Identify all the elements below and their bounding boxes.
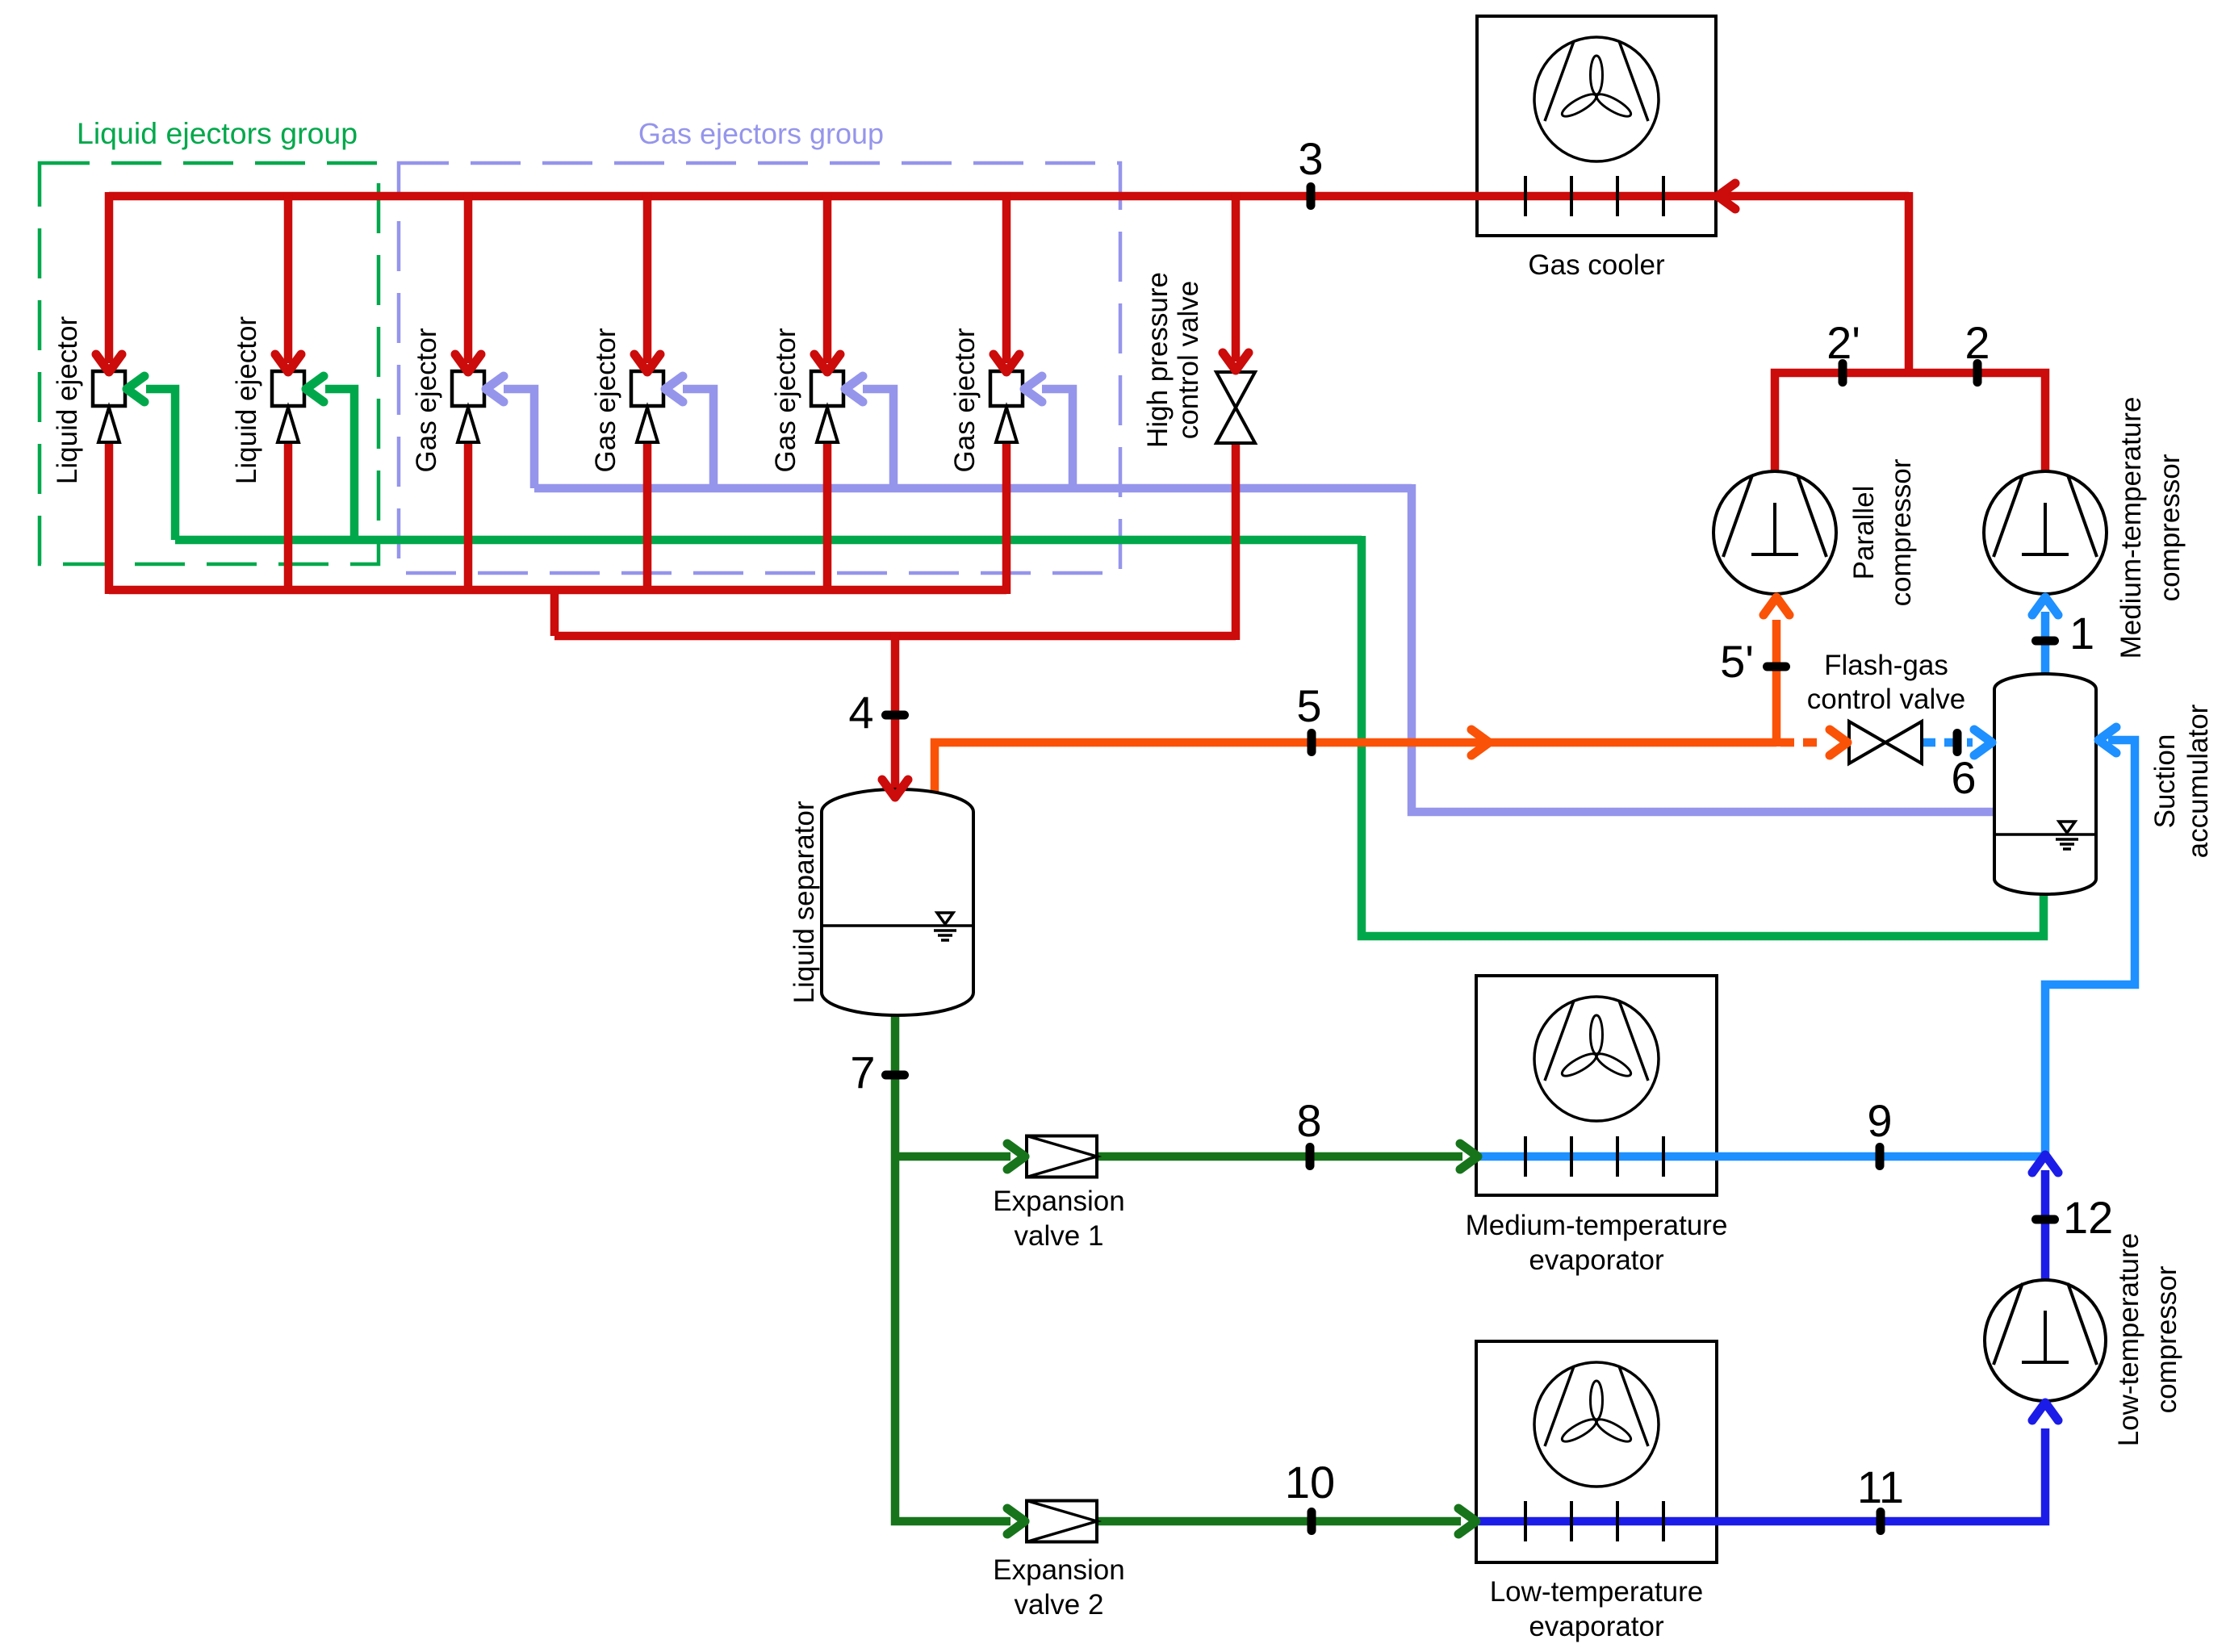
svg-text:Gas ejector: Gas ejector — [949, 328, 981, 472]
svg-text:5: 5 — [1296, 680, 1321, 731]
svg-text:Liquid ejectors group: Liquid ejectors group — [77, 116, 358, 150]
svg-text:Gas ejector: Gas ejector — [590, 328, 621, 472]
svg-text:High pressure: High pressure — [1142, 272, 1174, 448]
svg-text:Liquid ejector: Liquid ejector — [231, 316, 262, 485]
svg-text:Liquid separator: Liquid separator — [789, 801, 820, 1003]
svg-text:Suction: Suction — [2149, 734, 2181, 829]
svg-text:11: 11 — [1857, 1462, 1904, 1512]
svg-text:Medium-temperature: Medium-temperature — [1466, 1210, 1728, 1241]
svg-text:2: 2 — [1964, 317, 1990, 368]
svg-text:evaporator: evaporator — [1529, 1611, 1664, 1642]
svg-text:Parallel: Parallel — [1848, 486, 1880, 580]
svg-text:evaporator: evaporator — [1529, 1244, 1664, 1276]
svg-text:Low-temperature: Low-temperature — [2113, 1233, 2144, 1447]
svg-text:Gas ejector: Gas ejector — [411, 328, 442, 472]
svg-text:compressor: compressor — [2151, 1265, 2182, 1413]
svg-text:2': 2' — [1826, 317, 1860, 368]
svg-text:Expansion: Expansion — [993, 1186, 1124, 1217]
svg-text:compressor: compressor — [1885, 458, 1917, 606]
svg-text:Flash-gas: Flash-gas — [1824, 650, 1948, 681]
svg-text:Gas cooler: Gas cooler — [1528, 249, 1665, 281]
svg-text:valve 2: valve 2 — [1015, 1589, 1104, 1621]
svg-text:Gas ejector: Gas ejector — [770, 328, 801, 472]
svg-text:Low-temperature: Low-temperature — [1490, 1576, 1704, 1608]
svg-text:6: 6 — [1951, 752, 1976, 803]
svg-text:7: 7 — [850, 1047, 875, 1098]
svg-text:compressor: compressor — [2154, 454, 2186, 601]
svg-text:Medium-temperature: Medium-temperature — [2115, 397, 2147, 659]
svg-text:Liquid ejector: Liquid ejector — [52, 316, 83, 485]
svg-text:8: 8 — [1296, 1095, 1321, 1146]
svg-text:1: 1 — [2069, 608, 2094, 659]
svg-text:valve 1: valve 1 — [1015, 1220, 1104, 1252]
svg-text:12: 12 — [2063, 1192, 2113, 1243]
svg-text:control valve: control valve — [1807, 684, 1965, 715]
svg-text:Expansion: Expansion — [993, 1554, 1124, 1586]
svg-text:9: 9 — [1867, 1095, 1892, 1146]
svg-text:10: 10 — [1285, 1457, 1335, 1508]
svg-text:control valve: control valve — [1173, 281, 1204, 439]
svg-text:accumulator: accumulator — [2182, 704, 2214, 858]
svg-text:Gas ejectors group: Gas ejectors group — [638, 117, 884, 150]
svg-text:4: 4 — [848, 687, 873, 738]
svg-text:3: 3 — [1298, 133, 1323, 184]
svg-text:5': 5' — [1720, 636, 1754, 687]
